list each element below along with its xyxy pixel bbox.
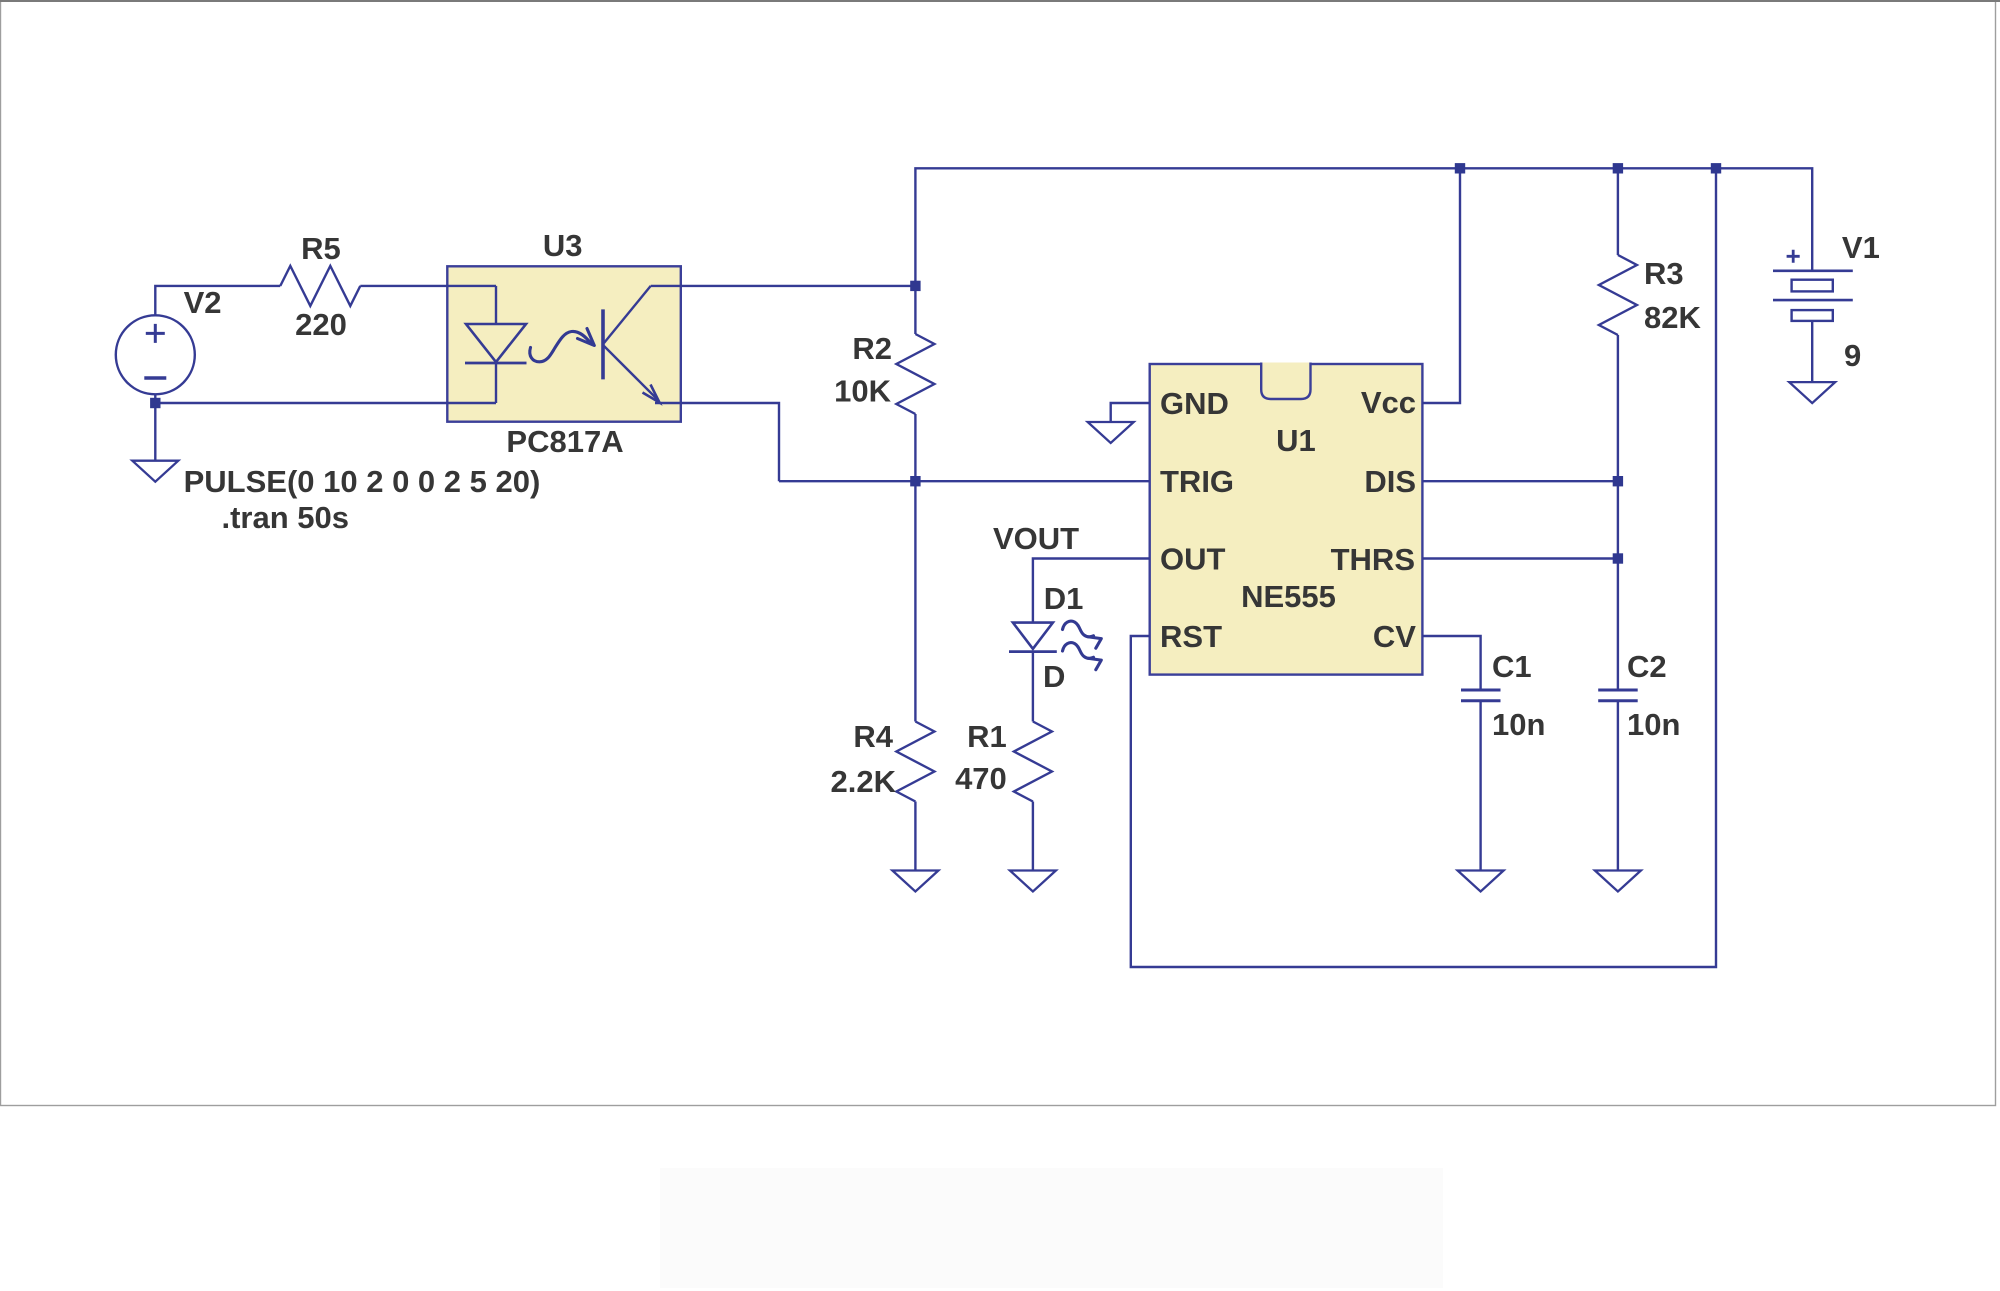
wire D1 to R1 (1032, 652, 1034, 722)
ground below V1 (1789, 382, 1835, 403)
U3 internal LED cathode lead (495, 363, 497, 403)
U3 internal LED anode lead (495, 286, 497, 324)
wire C2 to ground (1617, 701, 1619, 871)
wire R4 to ground (914, 802, 916, 871)
wire C1 to ground (1479, 701, 1481, 871)
battery V1 plate 2 (1773, 299, 1853, 302)
ground below C1 (1458, 871, 1504, 892)
resistor R1 (1014, 722, 1052, 802)
wire R2 bottom to R4 top (914, 414, 916, 722)
svg-text:V1: V1 (1842, 230, 1880, 265)
battery V1 cell 2 (1792, 310, 1833, 321)
wire U3 collector out to R2 node (651, 285, 916, 287)
wire V2 to ground (154, 394, 156, 460)
wire V2 plus lead (155, 286, 280, 315)
svg-text:R4: R4 (853, 719, 893, 754)
node DIS junction (1613, 476, 1623, 486)
battery V1 cell 1 (1792, 280, 1833, 292)
LED D1 cathode bar (1009, 650, 1057, 653)
svg-text:RST: RST (1160, 619, 1222, 654)
resistor R3 (1599, 255, 1637, 335)
svg-text:.tran 50s: .tran 50s (222, 500, 350, 535)
svg-text:V2: V2 (184, 285, 222, 320)
svg-text:R5: R5 (301, 231, 341, 266)
battery V1 plate 1 (1773, 269, 1853, 272)
svg-text:D: D (1043, 659, 1065, 694)
ground at U1 GND pin (1088, 422, 1134, 443)
ground below R1 (1010, 871, 1056, 892)
svg-text:GND: GND (1160, 386, 1229, 421)
node V2 minus junction (150, 398, 160, 408)
svg-text:C2: C2 (1627, 649, 1667, 684)
node Vcc rail junction (1455, 163, 1465, 173)
ground below R4 (892, 871, 938, 892)
U3 internal LED cathode bar (465, 362, 527, 365)
node TRIG junction (910, 476, 920, 486)
svg-text:CV: CV (1373, 619, 1416, 654)
resistor R4 (896, 722, 934, 802)
U3 phototransistor base bar (601, 309, 605, 379)
svg-text:470: 470 (955, 761, 1007, 796)
svg-text:THRS: THRS (1331, 542, 1415, 577)
wire OUT to D1 (1033, 559, 1150, 623)
capacitor C2 (1598, 689, 1638, 692)
LED D1 triangle (1013, 623, 1053, 649)
wire R3 top link (1617, 168, 1619, 255)
svg-text:Vcc: Vcc (1361, 385, 1416, 420)
svg-text:82K: 82K (1644, 300, 1701, 335)
resistor R2 (896, 334, 934, 414)
svg-text:R1: R1 (967, 719, 1007, 754)
capacitor C1 (1461, 689, 1501, 692)
svg-text:PULSE(0 10 2 0 0 2 5 20): PULSE(0 10 2 0 0 2 5 20) (184, 464, 541, 499)
node RST rail junction (1711, 163, 1721, 173)
U1 top notch (1261, 363, 1310, 400)
svg-text:R2: R2 (852, 331, 892, 366)
svg-text:2.2K: 2.2K (831, 764, 897, 799)
ground below V2 (132, 461, 178, 482)
U3 internal LED triangle (466, 324, 526, 362)
wire DIS row (1422, 480, 1618, 482)
svg-text:D1: D1 (1044, 581, 1084, 616)
svg-text:OUT: OUT (1160, 542, 1226, 577)
wire R3 to C2 (1617, 335, 1619, 690)
node R3 rail junction (1613, 163, 1623, 173)
svg-text:10n: 10n (1627, 707, 1680, 742)
wire Vcc riser (1422, 168, 1460, 403)
svg-text:10n: 10n (1492, 707, 1545, 742)
battery V1 plus sign (1787, 250, 1800, 263)
node R2 top junction (910, 281, 920, 291)
svg-text:TRIG: TRIG (1160, 464, 1234, 499)
wire CV to C1 (1422, 636, 1480, 690)
wire top supply rail (915, 168, 1812, 334)
U3 light squiggle arrow (530, 331, 592, 361)
svg-text:R3: R3 (1644, 256, 1684, 291)
wire U3 emitter out (655, 403, 779, 481)
voltage source V2 (116, 315, 195, 394)
svg-text:DIS: DIS (1364, 464, 1416, 499)
wire V2 minus row to U3 (155, 402, 496, 404)
svg-text:PC817A: PC817A (506, 424, 623, 459)
LED D1 light squiggle upper (1063, 621, 1094, 637)
svg-text:U3: U3 (543, 228, 583, 263)
U3 phototransistor emitter with arrow (604, 346, 658, 400)
svg-text:VOUT: VOUT (993, 521, 1079, 556)
svg-text:NE555: NE555 (1241, 579, 1336, 614)
wire V1 to ground (1811, 321, 1813, 382)
optocoupler U3 body (447, 266, 681, 421)
svg-text:U1: U1 (1276, 423, 1316, 458)
svg-text:10K: 10K (834, 374, 891, 409)
wire RST loop (1131, 168, 1716, 967)
svg-text:9: 9 (1844, 338, 1861, 373)
LED D1 light squiggle lower (1063, 643, 1094, 659)
wire R5 to U3 (360, 285, 496, 287)
U3 phototransistor collector (604, 286, 651, 343)
resistor R5 (280, 266, 360, 306)
wire TRIG row (779, 480, 1150, 482)
timer IC U1 body (1150, 364, 1423, 675)
wire GND pin stub (1111, 403, 1150, 422)
node THRS junction (1613, 553, 1623, 563)
wire THRS row (1422, 557, 1618, 559)
wire R1 to ground (1032, 802, 1034, 871)
svg-text:220: 220 (295, 307, 347, 342)
svg-text:C1: C1 (1492, 649, 1532, 684)
ground below C2 (1595, 871, 1641, 892)
